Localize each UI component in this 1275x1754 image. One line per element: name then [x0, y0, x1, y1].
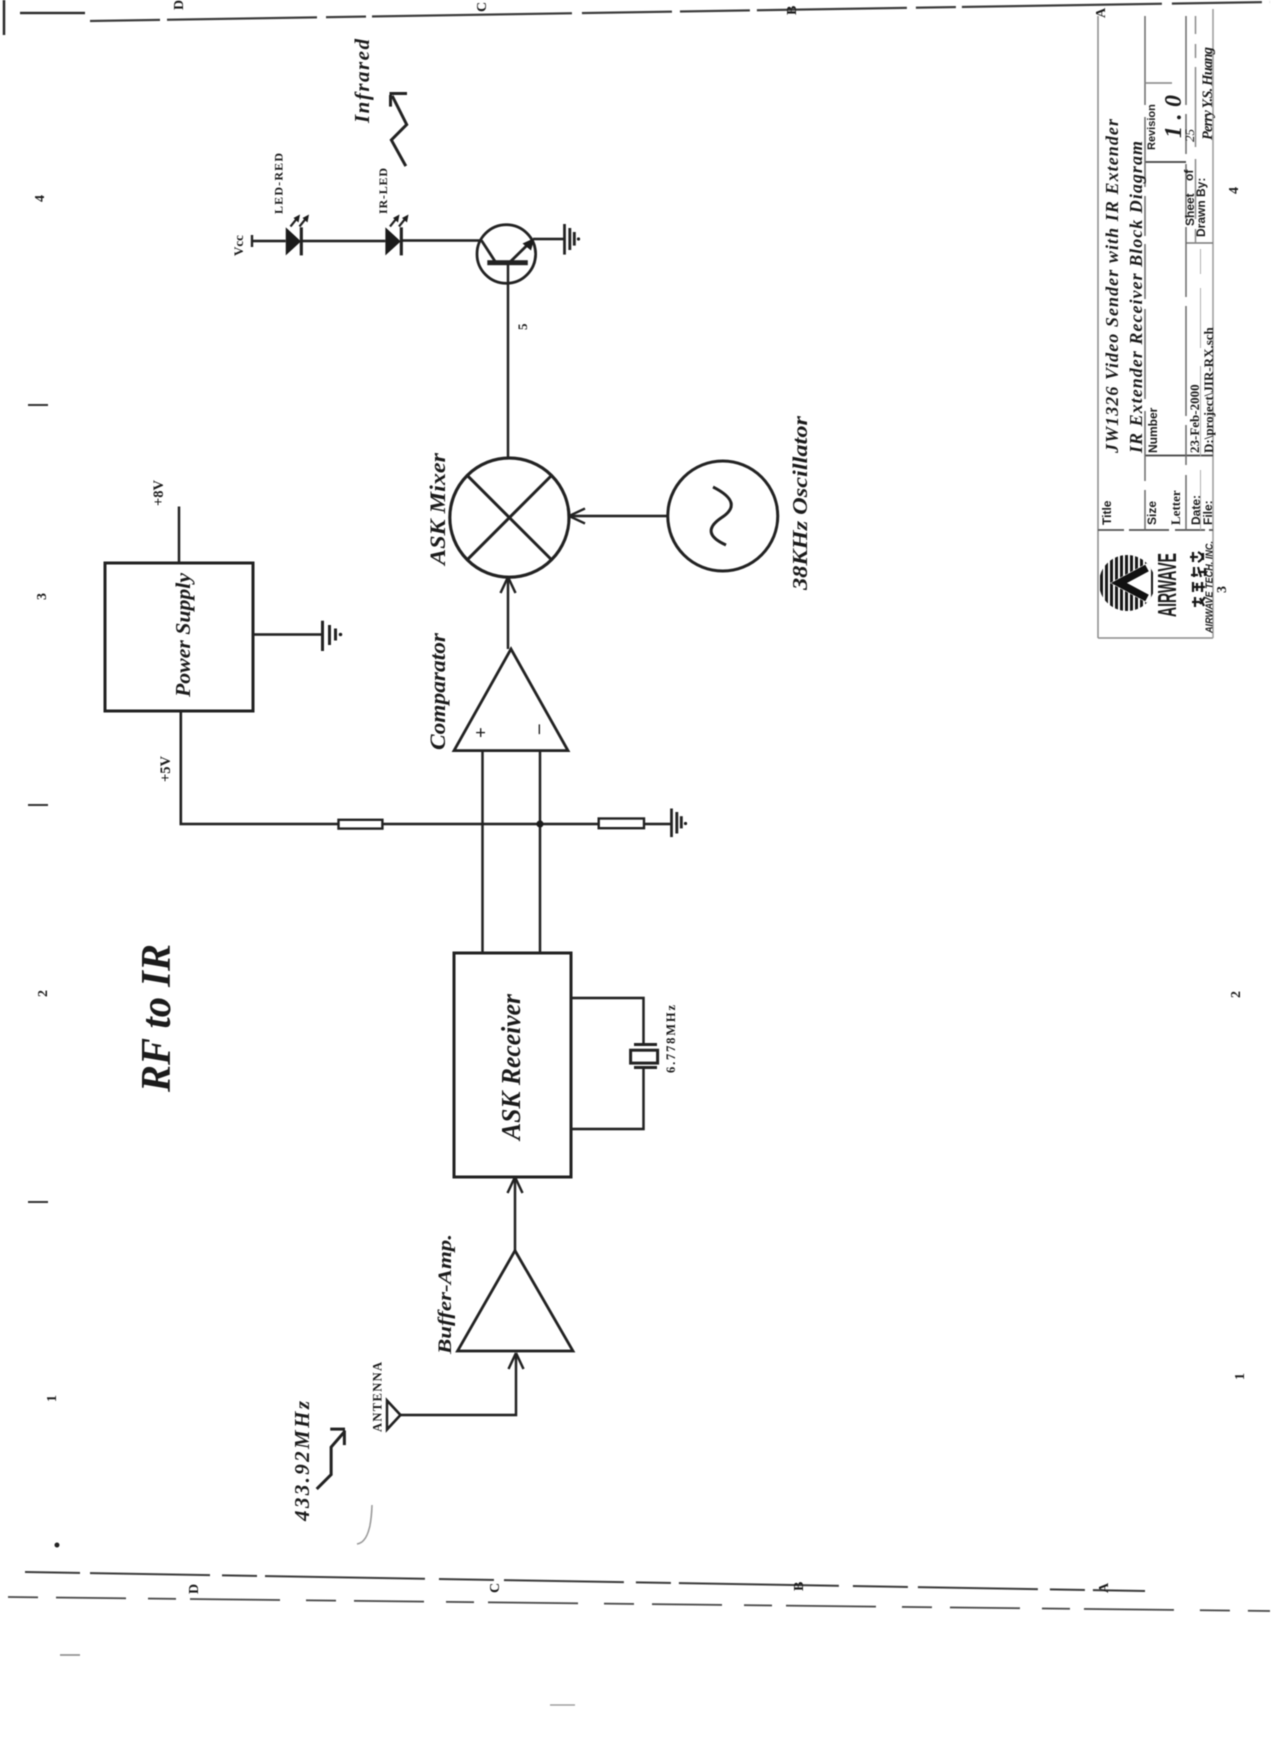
power supply block [105, 563, 253, 711]
wire mixer to transistor base [507, 265, 510, 458]
RF input arrow [317, 1432, 345, 1490]
LED D1 emission arrowheads [294, 215, 310, 223]
svg-text:Letter: Letter [1168, 490, 1183, 525]
buffer amplifier triangle [458, 1251, 574, 1351]
ground dot power supply [339, 633, 342, 636]
wire power supply +8V stub [178, 507, 181, 564]
LED D2 (IR-LED) triangle [385, 227, 400, 255]
title block row line under title [1144, 16, 1146, 530]
svg-text:RF to IR: RF to IR [134, 944, 180, 1093]
svg-text:Infrared: Infrared [350, 39, 374, 125]
wire comparator to ASK mixer [507, 579, 510, 649]
title block revision cell fragment [1145, 82, 1172, 84]
ground below power supply [323, 621, 336, 651]
stray dot artifact [55, 1543, 60, 1548]
LED D2 emission arrowheads [393, 215, 409, 223]
svg-text:ASK Receiver: ASK Receiver [496, 994, 526, 1142]
ground at emitter [565, 224, 575, 255]
oscillator sine wave [711, 487, 731, 545]
title block divider number/revision [1145, 161, 1186, 163]
resistor R2 above ground [599, 819, 644, 829]
svg-text:1: 1 [1233, 1373, 1248, 1380]
svg-text:Drawn By:: Drawn By: [1194, 178, 1208, 237]
svg-text:3: 3 [35, 593, 50, 600]
svg-text:IR-LED: IR-LED [376, 168, 390, 214]
svg-text:LED-RED: LED-RED [272, 153, 286, 214]
title block top border [1097, 16, 1099, 638]
Vcc terminal tick [251, 235, 253, 247]
wire ASK receiver to crystal right leg [571, 998, 644, 1044]
transistor Q1 emitter stroke [510, 240, 533, 262]
ASK Receiver block [454, 953, 571, 1177]
svg-text:23-Feb-2000: 23-Feb-2000 [1187, 384, 1202, 453]
svg-text:Size: Size [1145, 501, 1159, 525]
svg-text:+5V: +5V [158, 755, 174, 782]
svg-text:–: – [528, 724, 549, 735]
svg-text:ANTENNA: ANTENNA [371, 1362, 385, 1432]
title block divider date/sheet column [1186, 242, 1213, 244]
ground dot below R2 [684, 822, 687, 825]
title block row line under date [1200, 249, 1202, 530]
comparator triangle [454, 649, 568, 751]
svg-text:File:: File: [1201, 500, 1215, 525]
resistor R1 on +5V rail [339, 820, 383, 829]
svg-text:C: C [475, 2, 490, 12]
svg-text:6.778MHz: 6.778MHz [664, 1005, 678, 1073]
LED D1 emission arrows [291, 217, 308, 227]
crystal Y1 body [631, 1050, 658, 1063]
transistor Q1 base bar [487, 260, 528, 265]
svg-text:IR Extender Receiver Block Dia: IR Extender Receiver Block Diagram [1126, 141, 1146, 454]
zone tick top 3/4 [28, 404, 48, 406]
svg-text:ASK Mixer: ASK Mixer [425, 453, 450, 568]
svg-text:AIRWAVE: AIRWAVE [1152, 553, 1182, 617]
svg-text:JW1326 Video Sender with IR Ex: JW1326 Video Sender with IR Extender [1102, 118, 1122, 454]
wire oscillator to mixer [571, 515, 668, 518]
arrowhead into buffer-amp [509, 1353, 524, 1369]
transistor Q1 collector stroke [482, 241, 496, 263]
svg-text:25: 25 [1182, 129, 1197, 143]
transistor Q1 emitter arrowhead [523, 238, 535, 251]
svg-text:433.92MHz: 433.92MHz [290, 1400, 314, 1522]
svg-text:A: A [1094, 7, 1109, 18]
svg-text:5: 5 [515, 323, 530, 330]
svg-text:Number: Number [1146, 407, 1160, 453]
wire +5V rail [181, 711, 671, 824]
svg-text:3: 3 [1215, 586, 1230, 593]
crystal Y1 left plate [634, 1066, 657, 1069]
svg-text:Revision: Revision [1146, 104, 1158, 150]
wire ASK receiver to comparator + input [481, 751, 484, 953]
RF input arrowhead [330, 1429, 345, 1445]
wire power supply ground stub [253, 633, 322, 636]
svg-text:+: + [471, 727, 492, 738]
arrowhead into ASK mixer [501, 577, 516, 593]
svg-text:+8V: +8V [151, 479, 167, 506]
title block divider logo/fields [1098, 529, 1213, 531]
frame left inner border [25, 1572, 1145, 1591]
wire Vcc to LED D1 [252, 240, 286, 243]
zone tick top 2/3 [28, 804, 48, 806]
ASK mixer circle [450, 458, 569, 577]
wire emitter to ground [533, 238, 564, 241]
frame left outer border [8, 1597, 1270, 1611]
svg-text:B: B [785, 6, 800, 15]
wire LED D1 to LED D2 [301, 240, 385, 243]
zone tick top 1/2 [28, 1201, 48, 1203]
svg-text:1: 1 [45, 1395, 60, 1402]
infrared arrowhead [390, 94, 408, 107]
svg-text:A: A [1097, 1582, 1112, 1593]
ASK mixer X cross [467, 476, 551, 560]
svg-text:D:\project\JIR-RX.sch: D:\project\JIR-RX.sch [1201, 326, 1216, 453]
svg-text:D: D [172, 0, 187, 10]
wire antenna to buffer-amp [401, 1355, 517, 1415]
svg-text:Power Supply: Power Supply [171, 572, 195, 698]
stray dash artifact left mid [550, 1704, 575, 1706]
svg-text:38KHz Oscillator: 38KHz Oscillator [788, 415, 812, 591]
svg-text:Perry Y.S. Huang: Perry Y.S. Huang [1200, 47, 1216, 140]
arrowhead into ASK receiver [508, 1177, 523, 1193]
title block bottom border [1212, 9, 1214, 638]
infrared emission zigzag arrow [391, 96, 406, 166]
company chinese characters [1190, 552, 1205, 607]
svg-text:C: C [488, 1583, 503, 1593]
arrowhead into mixer bottom [569, 509, 585, 524]
svg-text:4: 4 [33, 195, 48, 202]
wire buffer-amp to ASK receiver [514, 1179, 517, 1251]
svg-text:Vcc: Vcc [231, 235, 246, 256]
svg-text:2: 2 [36, 990, 51, 997]
LED D1 (LED-RED) triangle [286, 227, 301, 255]
title block row line under number [1185, 16, 1187, 530]
transistor Q1 circle [477, 225, 536, 284]
LED D2 cathode bar [400, 227, 403, 255]
junction dot rail to - input [536, 820, 543, 827]
38KHz oscillator circle [668, 461, 778, 571]
LED D2 emission arrows [390, 217, 407, 227]
ground dot at emitter [577, 237, 580, 240]
frame right border [90, 2, 1270, 21]
crystal Y1 right plate [634, 1043, 657, 1046]
stray arc artifact [357, 1505, 372, 1544]
wire ASK receiver to crystal left leg [571, 1068, 644, 1129]
AIRWAVE logo striped globe [1102, 555, 1152, 611]
title block left border [1098, 637, 1213, 639]
LED D1 cathode bar [300, 227, 303, 255]
stray dash artifact lower left [60, 1654, 80, 1656]
svg-text:Title: Title [1100, 500, 1114, 525]
antenna symbol [387, 1401, 401, 1430]
frame top-right corner [4, 0, 85, 35]
svg-text:D: D [187, 1584, 202, 1594]
wire LED D2 to transistor collector [401, 239, 482, 242]
svg-text:B: B [792, 1582, 807, 1591]
svg-text:AIRWAVE TECH. INC.: AIRWAVE TECH. INC. [1204, 541, 1216, 634]
ground below resistor R2 [672, 809, 682, 838]
wire ASK receiver to comparator - input [539, 751, 542, 953]
svg-text:Comparator: Comparator [425, 633, 450, 750]
svg-text:4: 4 [1227, 187, 1242, 194]
title block divider labels/values [1145, 455, 1213, 457]
svg-text:Buffer-Amp.: Buffer-Amp. [435, 1234, 456, 1355]
title block row line under sheet [1195, 16, 1197, 243]
svg-text:2: 2 [1229, 991, 1244, 998]
